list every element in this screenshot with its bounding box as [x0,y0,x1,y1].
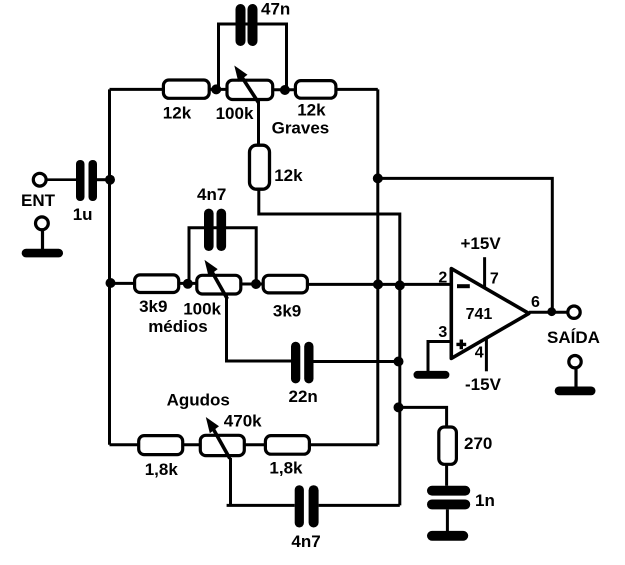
wire C 1u to bus [97,178,110,181]
capacitor C 47n [236,0,291,46]
resistor 12k right [295,81,336,120]
wire graves wiper stem [257,100,260,146]
capacitor C 1n [427,486,495,510]
node medios out bus1 [373,279,383,289]
svg-text:12k: 12k [274,166,303,185]
wire 1n to ground [446,509,449,531]
node medios out bus2 [395,280,405,290]
node medios left [183,279,193,289]
svg-text:1n: 1n [475,491,495,510]
wire output pin 6 [529,311,568,314]
svg-text:2: 2 [438,270,447,287]
wire feedback to output [378,178,553,311]
svg-text:3k9: 3k9 [139,297,167,316]
potentiometer 100k medios [148,260,241,336]
svg-text:médios: médios [148,317,208,336]
svg-text:1u: 1u [73,205,93,224]
wire 4n7 to mid bus [319,504,400,507]
svg-text:22n: 22n [289,387,318,406]
svg-text:-15V: -15V [465,375,502,394]
svg-text:+15V: +15V [461,234,502,253]
resistor 3k9 left [135,275,179,316]
svg-text:100k: 100k [183,299,221,318]
svg-text:270: 270 [464,434,492,453]
wire medios row [110,283,452,284]
wire medios wiper stem to 22n [227,294,292,361]
svg-text:Agudos: Agudos [167,390,230,409]
ground output [555,356,596,396]
wire agudos row [110,443,378,446]
potentiometer 100k Graves [216,66,330,138]
wire 4n7 bypass medios [189,228,256,284]
ground pin 3 [414,371,450,379]
svg-text:3k9: 3k9 [273,302,301,321]
resistor 12k feedback vertical [250,145,304,189]
capacitor C 22n [289,342,318,406]
capacitor C 4n7 medios [197,185,226,251]
resistor 270 [439,427,493,464]
svg-text:7: 7 [490,270,499,287]
svg-text:Graves: Graves [272,119,330,138]
resistor 3k9 right [263,275,307,320]
svg-text:470k: 470k [224,412,262,431]
wire 12k bottom to mid bus [259,189,400,506]
wire to resistor 270 [399,407,447,427]
node feedback top [373,173,383,183]
node graves left [211,84,221,94]
op-amp U1 741 [438,269,540,362]
ground input [22,217,63,257]
svg-text:12k: 12k [297,100,326,119]
wire right bus [376,89,379,444]
node medios bus [106,278,116,288]
node graves right [280,85,290,95]
svg-text:1,8k: 1,8k [145,460,179,479]
node input junction [105,175,115,185]
terminal SAIDA [547,306,600,347]
node 22n junction [394,357,404,367]
wire pin 4 -15V [485,338,488,371]
resistor 12k left [163,80,209,123]
node output [547,307,556,316]
wire graves row [110,88,378,91]
svg-text:ENT: ENT [21,191,56,210]
wire ENT to C 1u [46,178,76,181]
svg-text:47n: 47n [261,0,290,19]
resistor 1,8k left [139,436,183,479]
svg-text:12k: 12k [163,104,192,123]
svg-text:1,8k: 1,8k [269,459,303,478]
wire pin 3 to ground [428,342,451,372]
node medios right [251,279,261,289]
svg-text:4n7: 4n7 [291,532,320,551]
wire 270 to 1n [445,464,448,486]
wire 47n bypass [219,24,287,90]
wire 22n to mid bus [314,360,400,363]
node summing to 270 [394,402,404,412]
svg-text:3: 3 [438,324,447,341]
wire pin 7 +15V [483,257,486,288]
ground 1n [427,531,468,541]
svg-text:6: 6 [531,294,540,311]
svg-text:SAÍDA: SAÍDA [547,328,600,347]
capacitor C 4n7 agudos [291,485,320,551]
svg-text:100k: 100k [216,104,254,123]
potentiometer 470k Agudos [167,390,263,458]
resistor 1,8k right [265,436,309,478]
svg-text:4: 4 [475,345,484,362]
wire left input bus [108,89,111,444]
svg-text:741: 741 [466,306,493,323]
svg-text:4n7: 4n7 [197,185,226,204]
terminal ENT [21,173,56,210]
wire agudos wiper stem to 4n7 [227,458,295,505]
capacitor C 1u [73,160,97,224]
